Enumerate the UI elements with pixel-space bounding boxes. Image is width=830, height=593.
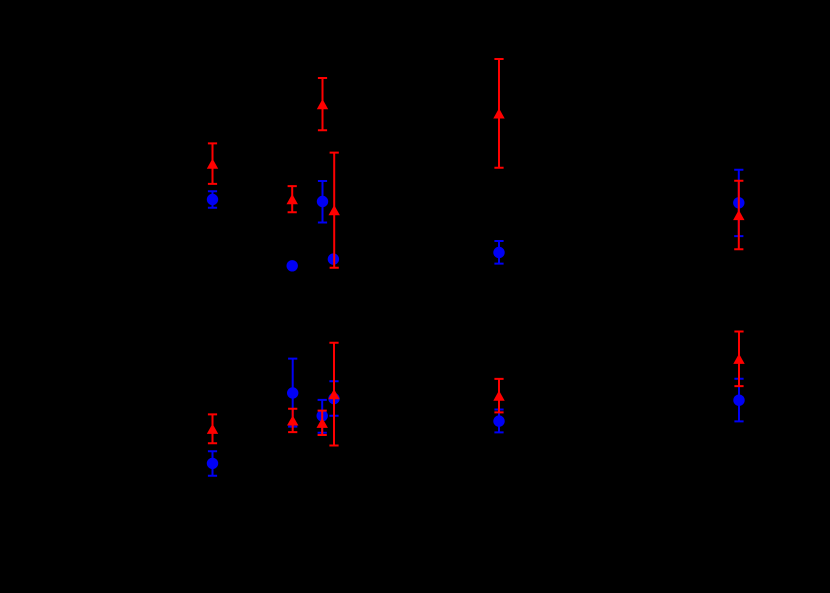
blue series markers (207, 194, 745, 469)
blue errorbar B12 (734, 379, 743, 422)
blue errorbar B11 (494, 410, 503, 433)
red triangle R8 (287, 415, 298, 425)
blue circle B6 (733, 197, 744, 208)
red errorbar R11 (494, 379, 503, 413)
blue circle B5 (493, 247, 504, 258)
blue errorbar B8 (288, 359, 297, 427)
blue errorbar B6 (734, 170, 743, 236)
blue errorbar B10 (329, 381, 338, 416)
blue errorbar B5 (494, 241, 503, 264)
red errorbar R3 (318, 78, 327, 130)
blue circle B2 (287, 260, 298, 271)
red series error bars (208, 59, 744, 446)
red triangle R5 (493, 108, 504, 118)
blue series error bars (208, 170, 744, 476)
blue errorbar B7 (208, 451, 217, 476)
red triangle R1 (207, 159, 218, 169)
red errorbar R7 (208, 414, 217, 443)
red errorbar R12 (734, 332, 743, 387)
red series markers (207, 99, 745, 434)
blue circle B10 (328, 393, 339, 404)
red errorbar R9 (318, 411, 327, 435)
blue errorbar B9 (318, 400, 327, 433)
blue circle B3 (317, 196, 328, 207)
red errorbar R2 (288, 186, 297, 212)
blue errorbar B1 (208, 191, 217, 208)
red errorbar R8 (288, 409, 297, 432)
red triangle R2 (287, 194, 298, 204)
blue circle B9 (317, 410, 328, 421)
blue circle B11 (493, 415, 504, 426)
red triangle R10 (328, 389, 339, 399)
red errorbar R1 (208, 143, 217, 184)
red errorbar R6 (734, 181, 743, 250)
red triangle R4 (329, 205, 340, 215)
red triangle R9 (317, 418, 328, 428)
red triangle R11 (493, 391, 504, 401)
red triangle R7 (207, 424, 218, 434)
red errorbar R4 (330, 153, 339, 268)
blue circle B7 (207, 458, 218, 469)
red triangle R12 (733, 354, 744, 364)
blue circle B12 (733, 395, 744, 406)
red triangle R3 (317, 99, 328, 109)
blue circle B1 (207, 194, 218, 205)
red errorbar R5 (494, 59, 503, 168)
blue errorbar B3 (318, 181, 327, 223)
red errorbar R10 (329, 343, 338, 446)
red triangle R6 (733, 210, 744, 220)
blue circle B8 (287, 387, 298, 398)
blue circle B4 (328, 253, 339, 264)
